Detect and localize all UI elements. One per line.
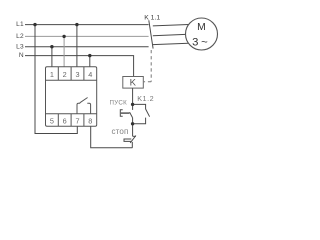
svg-text:7: 7 [75,116,79,125]
svg-text:L3: L3 [16,43,24,50]
svg-text:K 1.1: K 1.1 [144,14,160,21]
svg-text:L2: L2 [16,33,24,40]
svg-text:6: 6 [63,116,67,125]
svg-text:L1: L1 [16,21,24,28]
svg-text:8: 8 [88,116,92,125]
svg-text:K: K [130,78,137,89]
svg-text:1: 1 [50,70,54,79]
svg-text:3: 3 [75,70,79,79]
svg-text:3: 3 [192,36,198,48]
svg-text:ПУСК: ПУСК [110,99,128,106]
svg-text:N: N [19,52,24,59]
svg-text:стоп: стоп [112,127,129,136]
svg-text:K1.2: K1.2 [137,94,154,103]
svg-text:M: M [197,22,206,33]
svg-text:~: ~ [201,36,208,48]
svg-text:2: 2 [63,70,67,79]
svg-text:4: 4 [88,70,92,79]
svg-text:5: 5 [50,116,54,125]
